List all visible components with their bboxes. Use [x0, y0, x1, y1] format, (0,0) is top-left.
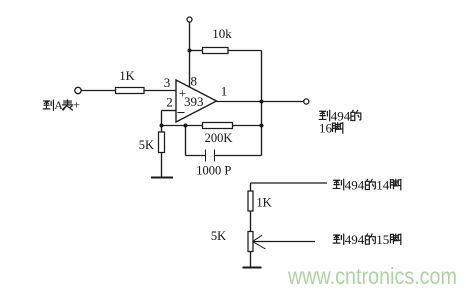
svg-text:393: 393 [184, 94, 204, 109]
svg-text:2: 2 [166, 95, 173, 110]
svg-text:www.cntronics.com: www.cntronics.com [287, 263, 457, 289]
svg-text:1: 1 [221, 84, 228, 99]
svg-text:5K: 5K [139, 138, 154, 152]
svg-text:5K: 5K [211, 229, 226, 243]
svg-text:10k: 10k [212, 26, 232, 41]
svg-text:200K: 200K [205, 131, 233, 145]
svg-text:3: 3 [164, 75, 171, 90]
svg-text:1K: 1K [256, 196, 271, 210]
svg-text:1000 P: 1000 P [196, 164, 231, 178]
svg-text:494: 494 [331, 108, 351, 123]
svg-text:494: 494 [345, 177, 365, 192]
svg-text:14: 14 [376, 177, 390, 192]
svg-text:16: 16 [319, 121, 333, 136]
svg-text:+: + [73, 98, 80, 112]
svg-text:494: 494 [345, 232, 365, 247]
svg-text:15: 15 [376, 232, 389, 247]
svg-text:8: 8 [191, 74, 198, 89]
svg-text:1K: 1K [119, 69, 134, 83]
